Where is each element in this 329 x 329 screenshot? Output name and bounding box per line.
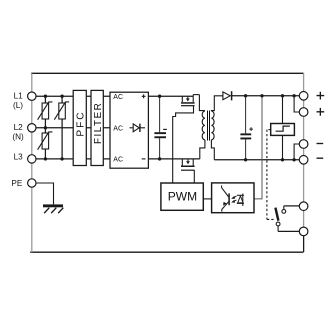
node L1/RV1 — [44, 95, 47, 98]
rectifier block U1 — [110, 92, 148, 168]
node L1/RV2 — [60, 95, 63, 98]
DC-OK detector U3 — [271, 124, 295, 136]
wire PE to ground — [36, 183, 54, 204]
wire secondary top lead — [211, 96, 223, 111]
terminal relay bottom — [299, 227, 308, 236]
ground (PE symbol) — [43, 204, 63, 213]
PFC block — [73, 90, 86, 165]
left terminal rail (gray) — [31, 73, 33, 252]
node L2/RV1 — [44, 126, 47, 129]
svg-text:L1: L1 — [14, 92, 24, 101]
wire L1 line — [36, 95, 110, 97]
wire DC-OK riser bottom — [282, 135, 284, 159]
svg-text:PE: PE — [11, 179, 22, 188]
svg-text:AC: AC — [113, 94, 123, 101]
wire feedback riser to optocoupler — [254, 96, 262, 199]
svg-text:PFC: PFC — [76, 111, 87, 137]
wire +V output rail — [232, 95, 300, 97]
terminal L3 — [28, 155, 36, 163]
wire Q1 to transformer primary top — [199, 95, 205, 111]
transformer T1 primary winding — [202, 111, 205, 140]
node L3/RV2 — [60, 157, 63, 160]
node DC-OK top — [281, 94, 284, 97]
svg-text:L2: L2 — [14, 123, 24, 132]
label -1 — [317, 143, 324, 145]
transformer T1 core — [208, 111, 210, 141]
frame bottom line — [30, 251, 303, 253]
transistor Q2 (bottom MOSFET) — [181, 159, 195, 170]
terminal -1 — [299, 140, 308, 149]
wire L2 line — [36, 127, 110, 129]
node feedback tap — [260, 94, 263, 97]
wire secondary bottom lead — [211, 140, 214, 160]
node DC-OK bottom — [281, 158, 284, 161]
terminal relay top — [299, 202, 308, 211]
FILTER block — [91, 90, 104, 165]
node DC-/C1 — [158, 157, 161, 160]
frame top line — [31, 72, 303, 74]
label -2 — [317, 157, 324, 159]
relay contact K1 — [275, 206, 299, 232]
right terminal rail (gray) — [303, 73, 305, 252]
dashed control line to relay — [267, 130, 275, 220]
wire relay bottom terminal to frame — [303, 236, 305, 252]
wire L3 line — [36, 158, 110, 160]
label +2 — [317, 108, 325, 116]
wire varistor RV3 branch — [44, 128, 46, 159]
diode D1 (secondary rectifier) — [223, 91, 232, 100]
svg-text:PWM: PWM — [168, 189, 197, 203]
varistor RV3 — [38, 132, 53, 150]
optocoupler U2 — [212, 183, 254, 213]
wire Q1 gate to PWM — [173, 106, 194, 183]
terminal -2 — [299, 156, 308, 165]
varistor RV2 — [54, 102, 69, 120]
wire to second + terminal — [294, 96, 299, 112]
rectifier internal diode — [130, 124, 146, 132]
node C2 top — [244, 94, 247, 97]
node L3/RV3 — [44, 157, 47, 160]
wire transformer primary bottom to Q2 — [200, 140, 205, 159]
node C2 bottom — [244, 158, 247, 161]
capacitor C2 (output) — [240, 96, 253, 160]
wire PWM to optocoupler — [203, 198, 211, 200]
svg-text:(N): (N) — [12, 133, 24, 142]
node second + tap — [292, 94, 295, 97]
svg-text:FILTER: FILTER — [93, 102, 104, 144]
svg-text:L3: L3 — [14, 152, 24, 161]
wire DC-OK riser top — [282, 96, 284, 124]
node DC+/C1 — [158, 95, 161, 98]
wire Q2 gate to PWM — [193, 170, 195, 183]
terminal +1 — [299, 92, 308, 101]
transformer T1 secondary winding — [211, 111, 214, 140]
terminal L1 — [28, 92, 36, 100]
capacitor C1 — [154, 96, 167, 159]
wire varistor RV2 branch — [61, 96, 63, 159]
PWM controller block — [161, 183, 203, 210]
svg-text:AC: AC — [113, 157, 123, 164]
wire DC- rail (primary) — [148, 158, 199, 160]
wire -V output rail — [214, 159, 299, 161]
transistor Q1 (top MOSFET) — [181, 95, 199, 106]
svg-text:AC: AC — [113, 126, 123, 133]
varistor RV1 — [38, 102, 53, 120]
wire to first - terminal — [294, 144, 299, 160]
label +1 — [317, 92, 325, 100]
svg-text:(L): (L) — [13, 101, 23, 110]
terminal L2 — [28, 124, 36, 132]
node first - tap — [292, 158, 295, 161]
terminal +2 — [299, 108, 308, 117]
wire DC+ rail (primary) — [148, 95, 193, 97]
wire varistor RV1 branch — [44, 96, 46, 128]
terminal PE — [28, 179, 36, 187]
